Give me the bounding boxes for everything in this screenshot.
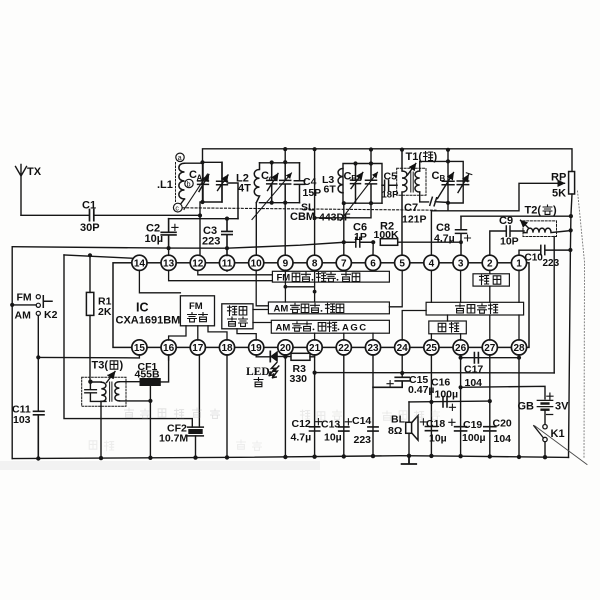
svg-text:B: B <box>440 174 446 183</box>
potentiometer RP <box>551 172 575 200</box>
node bus speaker <box>407 454 411 458</box>
svg-text:CBM: CBM <box>290 211 315 223</box>
pin 9 <box>278 255 293 270</box>
svg-text:): ) <box>434 151 438 163</box>
svg-text:22: 22 <box>338 343 350 354</box>
filter CF1 <box>135 355 169 386</box>
svg-text:IC: IC <box>136 301 149 315</box>
svg-text:C7: C7 <box>404 202 418 214</box>
svg-text:a: a <box>178 155 182 162</box>
pin 21 <box>307 340 322 355</box>
wire tuneind links <box>253 310 271 323</box>
svg-text:C20: C20 <box>493 418 512 430</box>
svg-text:.L1: .L1 <box>157 179 173 191</box>
wire pin2 discriminator <box>489 270 491 302</box>
capacitor C16 <box>431 377 458 411</box>
svg-text:RP: RP <box>551 172 566 184</box>
node C3 top <box>225 217 229 221</box>
wire pin20 down <box>284 355 286 457</box>
wire pin25 internal <box>430 334 432 340</box>
svg-text:C: C <box>432 170 440 182</box>
capacitor C10 <box>525 245 571 269</box>
svg-text:11: 11 <box>222 258 233 269</box>
wire right vertical <box>569 194 573 457</box>
node pin12 top <box>198 213 202 217</box>
wire FMIF to pin18 <box>208 326 227 340</box>
wire W1 right riser <box>553 237 555 373</box>
node CA top <box>200 160 204 164</box>
capacitor C11 <box>12 404 44 460</box>
block AM IF box <box>271 320 389 333</box>
wire pin9 to tank <box>284 203 286 256</box>
transformer T1 <box>397 150 448 256</box>
node C6 pin6 <box>371 240 375 244</box>
resistor R1 <box>86 255 111 381</box>
wire pin1 to C10 <box>519 250 540 255</box>
node C16 pin27 <box>488 399 492 403</box>
wire pin27 down <box>489 355 491 456</box>
svg-text:6T: 6T <box>324 184 337 196</box>
capacitor C3 <box>202 219 232 256</box>
pin 7 <box>336 255 351 270</box>
wire AMIF to pin21 <box>314 333 316 340</box>
svg-text:27: 27 <box>484 343 496 354</box>
wire pin4 internal <box>430 270 432 302</box>
wire pin10 to L2 <box>255 203 257 256</box>
wire CF1 ground leg <box>149 386 151 458</box>
node CA bottom <box>200 200 204 204</box>
svg-text:100K: 100K <box>374 229 400 241</box>
wire L3 tank bottom <box>343 202 382 204</box>
node bus pin26 <box>458 454 462 458</box>
pin 17 <box>190 340 205 355</box>
wire pin21 down <box>314 355 316 457</box>
ground <box>402 456 417 464</box>
pin 3 <box>453 255 468 270</box>
wire pin16 to CF1 <box>168 355 170 360</box>
node bus C11 <box>36 456 40 460</box>
wire pin3 top <box>461 215 571 217</box>
node CB box top link <box>446 159 450 163</box>
svg-text:5: 5 <box>399 258 405 269</box>
inductor L1 <box>157 163 203 203</box>
svg-text:8: 8 <box>312 258 318 269</box>
wire gang arrow L1 <box>184 174 208 210</box>
wire R2 to C8 <box>398 241 461 243</box>
wire C17 link <box>461 357 519 359</box>
block regulator box <box>429 321 467 334</box>
antenna TX <box>16 165 42 216</box>
pin 1 <box>511 255 526 270</box>
wire T3 ground leg <box>100 401 102 457</box>
LED red <box>246 351 291 386</box>
node pin8 link <box>313 216 317 220</box>
node pin9 top <box>283 201 287 205</box>
capacitor C1 <box>80 200 100 235</box>
svg-text:26: 26 <box>455 343 467 354</box>
capacitor C14 <box>352 415 378 446</box>
wire pin26 internal <box>460 334 462 340</box>
svg-text:7: 7 <box>341 258 347 269</box>
wire T3 out bottom <box>119 400 150 402</box>
capacitor C20 <box>484 418 512 446</box>
scan shadow below bus <box>0 461 320 470</box>
svg-text:C12: C12 <box>292 418 311 430</box>
svg-text:25: 25 <box>426 343 438 354</box>
node rail T1 <box>400 148 404 152</box>
pin 13 <box>161 255 176 270</box>
svg-text:28: 28 <box>513 343 525 354</box>
trimmer capacitor CB fm2 <box>457 173 472 193</box>
wire FMIF to pin17 <box>197 326 199 340</box>
pin 20 <box>278 340 293 355</box>
svg-text:2: 2 <box>487 258 493 269</box>
wire AM contact down <box>37 316 39 412</box>
pin 27 <box>482 340 497 355</box>
wire C2 C3 top link <box>169 218 238 220</box>
wire tuneind to pin19 <box>237 329 256 340</box>
node L3 bottom stub <box>369 201 373 205</box>
wire pin24 down <box>401 355 403 378</box>
svg-text:6: 6 <box>370 258 376 269</box>
pin 5 <box>395 255 410 270</box>
svg-text:10µ: 10µ <box>429 433 447 445</box>
trimmer capacitor CB osc <box>344 164 363 204</box>
svg-text:AM: AM <box>274 304 289 315</box>
pin 22 <box>336 340 351 355</box>
pin 28 <box>511 340 526 355</box>
capacitor C18 <box>425 418 455 445</box>
pin 11 <box>219 255 234 270</box>
svg-text:CXA1691BM: CXA1691BM <box>116 315 181 327</box>
wire ground bus <box>12 456 568 459</box>
svg-text:19: 19 <box>251 343 263 354</box>
block FM RF box <box>272 271 389 283</box>
capacitor C12 <box>291 418 322 444</box>
block audio amp box <box>426 302 523 315</box>
node rail pin8 <box>313 147 317 151</box>
node CF1 T3 <box>148 399 152 403</box>
trimmer capacitor Cc <box>261 163 278 203</box>
svg-text:): ) <box>120 360 124 372</box>
svg-text:12: 12 <box>192 258 204 269</box>
capacitor C8 <box>434 216 471 255</box>
pin 19 <box>249 340 264 355</box>
svg-text:T3(: T3( <box>92 360 109 372</box>
page edge diagonal <box>535 426 587 465</box>
svg-text:c: c <box>269 174 274 183</box>
watermark smudge row2 <box>301 410 440 421</box>
pin 14 <box>132 255 147 270</box>
node bus pin20 <box>283 455 287 459</box>
wire pin24 internal <box>402 311 426 341</box>
svg-text:14: 14 <box>134 258 146 269</box>
node L2 bottom <box>270 201 274 205</box>
wire pin18 down <box>226 355 228 458</box>
wire pin13 stub <box>168 248 170 255</box>
switch K1 <box>534 425 565 458</box>
node C2 pin13 <box>167 246 171 250</box>
battery GB 3V <box>518 393 570 424</box>
svg-text:FM: FM <box>189 301 203 312</box>
svg-text:FM: FM <box>277 273 291 284</box>
block FM IF box <box>180 296 214 326</box>
svg-text:T1(: T1( <box>406 151 423 163</box>
node bus K1 <box>543 455 547 459</box>
variable capacitor gang AM osc2 <box>252 162 292 219</box>
node battery feed pin26 <box>459 385 463 389</box>
pin 26 <box>453 340 468 355</box>
wire L2 tank bottom <box>260 202 300 204</box>
svg-text:4T: 4T <box>238 183 251 195</box>
wire switch pole <box>12 304 36 306</box>
svg-text:223: 223 <box>202 236 220 248</box>
resistor R3 <box>290 353 315 385</box>
node C16 pin25 <box>429 400 433 404</box>
svg-text:4.7µ: 4.7µ <box>291 432 312 444</box>
pin 12 <box>190 255 205 270</box>
svg-text:T2(: T2( <box>525 205 542 217</box>
svg-text:AGC: AGC <box>342 323 368 334</box>
wire pin13 internal <box>169 270 273 281</box>
IC U1 CXA1691BM box <box>113 263 529 348</box>
block discriminator box <box>473 274 509 286</box>
capacitor C6 <box>344 222 374 248</box>
node CB bottom <box>446 201 450 205</box>
node tap c <box>173 203 182 212</box>
svg-text:1: 1 <box>516 258 522 269</box>
wire pin22 down <box>343 355 345 456</box>
wire pin4 riser <box>430 211 432 256</box>
trimmer capacitor CA <box>189 162 209 202</box>
svg-text:K1: K1 <box>551 428 565 440</box>
wire pin5 internal <box>389 270 402 307</box>
node pin21 W1 <box>313 371 317 375</box>
node bus CF2 <box>193 455 197 459</box>
wire pin28 internal <box>518 315 520 340</box>
node bus CF1 <box>148 456 152 460</box>
LED light arrows <box>269 363 279 378</box>
wire pin11 internal <box>226 270 228 271</box>
pin 15 <box>132 340 147 355</box>
node T3 cap top <box>88 380 92 384</box>
svg-text:10P: 10P <box>500 236 519 248</box>
node right v T2 <box>569 228 573 232</box>
watermark smudge row3 <box>89 440 261 451</box>
svg-text:B: B <box>351 174 357 183</box>
wire CB box <box>448 150 463 203</box>
inductor L3 <box>322 169 343 196</box>
switch K2 <box>15 292 58 322</box>
transformer T3 <box>82 360 126 407</box>
wire pin6 stub <box>372 242 374 255</box>
capacitor C5 <box>382 171 400 201</box>
node AM wire <box>36 355 40 359</box>
svg-text:20: 20 <box>280 343 292 354</box>
wire pin9 internal <box>284 270 286 302</box>
wire L3 tank top <box>343 150 382 204</box>
wire battery feed <box>461 386 545 399</box>
capacitor C7 <box>402 197 448 225</box>
node C6 pin7 <box>342 240 346 244</box>
wire pin25 down <box>430 355 432 456</box>
trimmer capacitor CB fm <box>432 170 455 199</box>
node gang2 top <box>283 160 287 164</box>
wire pin1 internal <box>518 270 520 302</box>
svg-text:30P: 30P <box>80 222 100 234</box>
svg-text:223: 223 <box>543 258 560 269</box>
wire left top to pin13 <box>12 242 344 248</box>
wire pin2 to C9 <box>490 231 506 255</box>
svg-text:24: 24 <box>397 343 409 354</box>
svg-text:3: 3 <box>458 258 464 269</box>
pin 4 <box>424 255 439 270</box>
svg-text:c: c <box>175 206 179 213</box>
node C17 pin26 <box>459 356 463 360</box>
wire L3 to pin8 link <box>315 203 371 218</box>
wire CB to RP wiper <box>431 183 564 211</box>
wire CA bottom to pin 12 <box>199 202 201 255</box>
node bus pin28 <box>517 455 521 459</box>
trimmer capacitor gang FM <box>217 162 238 218</box>
capacitor C15 <box>373 374 435 396</box>
wire antenna to C1 <box>21 214 89 216</box>
svg-text:10µ: 10µ <box>145 233 164 245</box>
pin 8 <box>307 255 322 270</box>
node rail L2 <box>283 147 287 151</box>
node bus pin18 <box>225 455 229 459</box>
node switch pole <box>10 303 14 307</box>
node L2 top <box>270 160 274 164</box>
node L3 bottom pin7 <box>342 201 346 205</box>
node C3 bus <box>225 246 229 250</box>
wire AMIF to pin22 <box>343 333 345 340</box>
wire pin14 internal <box>139 270 180 293</box>
block tuning indicator box <box>222 304 253 329</box>
node L3 top <box>353 161 357 165</box>
svg-text:15: 15 <box>134 343 146 354</box>
svg-text:3V: 3V <box>555 401 569 413</box>
svg-text:10µ: 10µ <box>324 432 342 444</box>
wire pin27 internal <box>489 315 491 340</box>
page edge dotted line <box>578 191 585 458</box>
wire speaker top link <box>409 400 490 403</box>
transformer T2 <box>521 205 571 237</box>
wire gang dashed line <box>183 208 437 210</box>
svg-text:AM: AM <box>276 323 291 334</box>
svg-text:b: b <box>187 181 191 188</box>
speaker BL <box>388 402 427 457</box>
pin 25 <box>424 340 439 355</box>
wire pin12 internal <box>198 270 273 275</box>
svg-text:8Ω: 8Ω <box>388 425 402 437</box>
svg-text:100µ: 100µ <box>462 432 486 444</box>
node right v T2top <box>569 214 573 218</box>
svg-text:100µ: 100µ <box>435 389 459 401</box>
svg-text:15P: 15P <box>303 187 322 199</box>
pin 16 <box>161 340 176 355</box>
node pin20 LED <box>283 355 287 359</box>
svg-text:C5: C5 <box>384 171 398 183</box>
pin 24 <box>395 340 410 355</box>
node rail L3 <box>369 147 373 151</box>
node C17 pin28 <box>517 356 521 360</box>
capacitor C2 <box>145 219 179 248</box>
svg-text:C9: C9 <box>499 215 513 227</box>
svg-text:18: 18 <box>221 343 233 354</box>
svg-text:C14: C14 <box>352 415 371 427</box>
svg-text:C1: C1 <box>82 200 96 212</box>
node bus pin21 <box>312 455 316 459</box>
svg-text:C: C <box>261 170 269 182</box>
wire pin28 down <box>518 355 520 458</box>
svg-text:9: 9 <box>283 258 289 269</box>
svg-text:4: 4 <box>429 258 435 269</box>
wire left outer vertical <box>11 247 13 459</box>
node pin8 internal <box>313 290 317 294</box>
svg-text:4.7µ: 4.7µ <box>434 233 455 245</box>
svg-text:16: 16 <box>163 343 175 354</box>
svg-text:C17: C17 <box>464 364 483 376</box>
wire T3 out top <box>119 381 140 383</box>
pin 23 <box>365 340 380 355</box>
wire CA box <box>203 162 223 202</box>
node bus pin22 <box>342 454 346 458</box>
resistor R2 <box>374 221 400 246</box>
variable capacitor gang osc <box>341 164 378 221</box>
svg-text:): ) <box>553 205 557 217</box>
node bus pin23 <box>371 454 375 458</box>
svg-text:C19: C19 <box>463 419 482 431</box>
wire pin7 vertical <box>343 203 345 255</box>
wire C1 to pin12 node <box>94 214 200 216</box>
svg-text:21: 21 <box>309 343 321 354</box>
wire pin23 down <box>372 355 374 456</box>
node bus T3 <box>99 456 103 460</box>
inductor L2 <box>236 163 260 203</box>
node right v C10 <box>568 248 572 252</box>
pin 18 <box>219 340 234 355</box>
svg-text:104: 104 <box>494 433 512 445</box>
svg-text:LED: LED <box>246 366 270 378</box>
node rail CB <box>446 148 450 152</box>
node bus pin25 <box>429 454 433 458</box>
svg-text:AM: AM <box>15 310 32 322</box>
svg-text:10.7M: 10.7M <box>159 433 188 445</box>
wire pin3 internal <box>460 270 462 302</box>
capacitor C4 <box>294 163 321 203</box>
wire pin8 internal <box>285 270 314 302</box>
svg-text:TX: TX <box>27 166 42 178</box>
wire top rail <box>203 149 573 172</box>
capacitor C9 <box>499 215 524 248</box>
svg-text:23: 23 <box>367 343 379 354</box>
wire R1 feed to pin14 <box>64 255 133 258</box>
svg-text:C16: C16 <box>431 377 450 389</box>
wire pin19 to LED <box>256 355 270 357</box>
node tap a <box>176 153 185 203</box>
node C8 R2 <box>459 240 463 244</box>
wire pin26 down <box>460 355 462 456</box>
pin 6 <box>365 255 380 270</box>
capacitor C13 <box>321 419 352 444</box>
watermark smudge row1 <box>125 408 220 419</box>
svg-text:2K: 2K <box>98 306 112 318</box>
wire audio to regulator <box>447 315 449 321</box>
wire pin15 to switch <box>38 355 139 358</box>
svg-text:1P: 1P <box>354 231 367 243</box>
wire pin8 vertical <box>314 149 316 255</box>
